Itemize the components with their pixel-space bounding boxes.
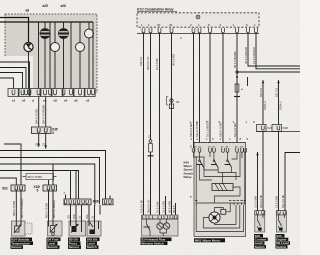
connector X26/1 bbox=[64, 199, 99, 207]
wires X18/5 to fuel level sensor bbox=[48, 191, 50, 221]
wire pin4 with inline diode to wiper box bbox=[234, 33, 243, 148]
rotated wire labels below relay bbox=[139, 36, 256, 137]
S40 coolant level switch bbox=[255, 211, 265, 232]
wire: bus line L3 bbox=[0, 158, 100, 205]
wire below X35/4 right bbox=[45, 134, 47, 149]
relay internal indicator bbox=[196, 15, 200, 19]
wire pin2b to wiper box bbox=[193, 33, 195, 148]
wires below connectors to level switches bbox=[262, 132, 264, 211]
relay K1/1 box bbox=[137, 13, 259, 27]
connector X27/1 on wire 263 bbox=[257, 125, 273, 132]
label bar B14 Outside Temperature Sensor bbox=[11, 237, 34, 249]
wire: bus line L2 bbox=[0, 151, 106, 200]
label bar M6/1 Wiper Motor bbox=[194, 238, 225, 242]
label bar B4 Fuel Level Sensor bbox=[47, 237, 61, 249]
wiper box internal switch contacts bbox=[197, 152, 232, 168]
S43 engine oil level switch bbox=[276, 211, 286, 232]
S42 oil level switch bbox=[87, 221, 101, 236]
B14 outside temperature sensor bbox=[12, 221, 33, 236]
wire: bus line L4 bbox=[0, 164, 95, 204]
wire: nested entry 1 bbox=[0, 62, 30, 89]
plain cluster wire x38.5 bbox=[38, 22, 40, 89]
connector X26/2 bbox=[103, 199, 114, 205]
instrument cluster A1 box bbox=[5, 14, 97, 93]
indicator lamp (gauge) at x63.5 bbox=[59, 22, 69, 89]
wires X26 down to oil level switch bbox=[88, 205, 90, 221]
label bar S40 coolant level switch bbox=[254, 234, 268, 249]
boxed wire label 300 0.75 BN bbox=[23, 174, 57, 180]
wiper wires pin numbers upper row bbox=[190, 120, 256, 124]
wire pin6 exits right bbox=[248, 33, 300, 66]
wire pin8 to wiper box bbox=[209, 33, 211, 148]
cluster connector row bbox=[8, 89, 95, 103]
wire pin7 exits right bbox=[256, 33, 300, 69]
wiper motor loop wiring bbox=[196, 203, 243, 232]
connector X35/4 bbox=[32, 127, 58, 135]
wiper box pin labels above bbox=[191, 137, 249, 141]
window switch extra pin wires bbox=[140, 196, 176, 215]
wiper internal connector row bbox=[195, 201, 246, 206]
wires X62 to temperature sensor bbox=[15, 191, 17, 221]
wire below X35/4 left bbox=[38, 134, 40, 148]
wire: stub to X62 second pin bbox=[0, 178, 16, 185]
cluster internal bus rail bbox=[0, 21, 93, 23]
rotated labels above level switches bbox=[253, 194, 285, 208]
open lamp symbol at x80 bbox=[76, 22, 85, 89]
arrowhead wire 38.7 bbox=[37, 144, 40, 147]
connector X62 bbox=[2, 185, 25, 191]
wire pin5 to window switch bbox=[159, 33, 161, 215]
label bar B5 Oil Press Sensor bbox=[68, 237, 81, 249]
relay pin numbers bbox=[141, 23, 256, 27]
plain cluster wire x50 bbox=[49, 22, 51, 89]
wire: nested entry 3 bbox=[0, 73, 23, 89]
wire: bus line L1 to X62 bbox=[4, 144, 21, 185]
connector X18/5 bbox=[34, 185, 57, 192]
cluster connector pins bbox=[12, 90, 15, 95]
open gauge symbol at x89 bbox=[85, 22, 94, 89]
plain cluster wire x71 bbox=[70, 22, 72, 89]
wire stub S40 left pin bbox=[256, 152, 259, 211]
indicator lamp (gauge) at x45 bbox=[40, 22, 50, 89]
label bar S42 Oil Level Switch bbox=[86, 237, 100, 249]
relay K40 label left of wiper box bbox=[184, 145, 244, 200]
wire 504 from cluster pin d5 down bbox=[38, 97, 40, 128]
wire: nested entry 2 bbox=[0, 68, 26, 89]
arrowhead wire 45.7 bbox=[44, 145, 47, 148]
wiper motor symbol bbox=[209, 208, 226, 224]
open lamp symbol at x55 bbox=[51, 22, 60, 89]
S43 oil pressure sensor bbox=[69, 221, 86, 236]
connector X27/2 on wire 278.5 bbox=[272, 125, 288, 132]
wires X26 down to oil pressure sensor bbox=[70, 205, 72, 221]
wiper motor M6/1 box bbox=[194, 143, 246, 237]
wire: nested entry 4 bbox=[0, 78, 14, 89]
wire junction exits right at y72 bbox=[237, 71, 300, 73]
wire from right edge to S43 bbox=[285, 153, 300, 211]
wire pin5b to wiper box bbox=[222, 33, 224, 148]
wire from off-page A30 left bbox=[259, 80, 267, 127]
wire 504a from cluster pin down bbox=[45, 97, 47, 128]
label bar S43 engine oil level switch bbox=[276, 234, 291, 249]
connector strip bottom rail bbox=[257, 131, 301, 133]
window switch contacts bbox=[144, 219, 170, 236]
wiper box internal wiring bbox=[194, 152, 245, 203]
wiper box top pins bbox=[192, 148, 246, 152]
window switch S14 box bbox=[142, 215, 179, 236]
wire pin2 with inline fuse chain bbox=[148, 33, 154, 215]
wire: feed into cluster from left bbox=[0, 18, 29, 43]
label bar S14 heated rear window switch bbox=[141, 237, 172, 245]
plain cluster wire x93 bbox=[92, 22, 94, 89]
relay K1/1 combination relay title bbox=[137, 8, 177, 12]
wire pin1 to window switch bbox=[143, 33, 145, 215]
relay socket pins bbox=[142, 28, 257, 33]
relay connector strip bottom line bbox=[137, 33, 259, 35]
wire from off-page A30 right bbox=[274, 80, 282, 127]
B4 fuel level sensor bbox=[48, 221, 63, 236]
stub X26/2 right pin bbox=[109, 196, 111, 200]
wire pin1b to wiper box bbox=[199, 33, 201, 148]
wires above X18/5 bbox=[48, 180, 50, 185]
wire: bus line L5 bbox=[0, 171, 79, 200]
wire pin3 with inline connector bbox=[167, 33, 180, 215]
wiper relay coil bbox=[212, 173, 240, 204]
wires above X26 bbox=[65, 195, 67, 200]
bulb symbol (filled) at x28.5 bbox=[24, 42, 33, 88]
